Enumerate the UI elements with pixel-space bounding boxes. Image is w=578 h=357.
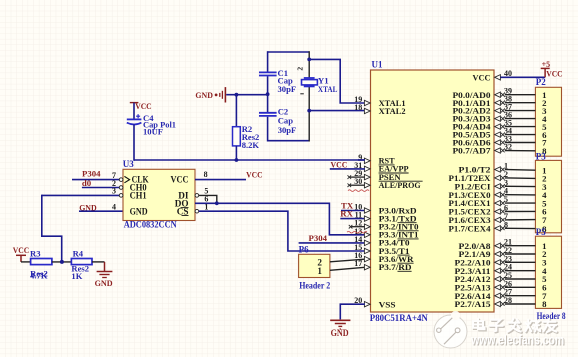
wire R2 bottom stem <box>235 146 237 160</box>
svg-text:30pF: 30pF <box>278 125 297 135</box>
U1 right pin arrows and x-marks <box>495 75 501 80</box>
svg-text:VCC: VCC <box>331 160 348 170</box>
U3 pin bubbles <box>119 178 123 182</box>
node crystal-bottom junction <box>307 109 311 113</box>
wire P6 pin2 to U1 pin 16 <box>330 259 365 262</box>
svg-text:XTAL2: XTAL2 <box>379 106 407 116</box>
svg-text:www.elecfans.com: www.elecfans.com <box>470 333 564 348</box>
svg-text:10UF: 10UF <box>143 127 163 137</box>
wire R2 top stem <box>235 95 237 127</box>
wire U1 VSS pin 20 to ground <box>340 304 365 319</box>
svg-text:P80C51RA+4N: P80C51RA+4N <box>370 314 428 324</box>
capacitor C2 <box>259 112 277 114</box>
svg-text:+5: +5 <box>542 60 551 69</box>
svg-text:GND: GND <box>130 206 148 216</box>
watermark url text <box>470 333 565 349</box>
svg-text:d0: d0 <box>82 178 92 188</box>
wires P0 bus to P2 header <box>505 94 536 96</box>
svg-text:8.2K: 8.2K <box>242 140 260 150</box>
wire crystal vertical <box>308 51 310 78</box>
svg-text:8: 8 <box>542 299 547 309</box>
wire XTAL2 to U1 pin 18 <box>309 110 365 112</box>
svg-text:R4: R4 <box>73 249 84 259</box>
wire VCC to U1 pin 31 <box>330 168 365 170</box>
svg-text:CH1: CH1 <box>130 190 147 200</box>
wire cap-loop top <box>268 51 310 53</box>
svg-text:VSS: VSS <box>379 299 396 309</box>
svg-text:3: 3 <box>112 187 116 196</box>
wire CH1 vertical to divider <box>42 195 62 262</box>
error squiggle under pin 12 <box>347 231 367 233</box>
svg-text:ADC0832CCN: ADC0832CCN <box>124 220 177 230</box>
svg-text:VCC: VCC <box>546 69 563 79</box>
node R3-R4 junction <box>60 260 64 264</box>
svg-text:VCC: VCC <box>13 245 30 255</box>
pin number 1 of Y1 (rotated) <box>300 93 304 95</box>
svg-text:P304: P304 <box>309 233 328 243</box>
op-amp U1 P80C51RA+4N body <box>371 70 495 312</box>
svg-text:GND: GND <box>331 328 349 338</box>
svg-text:P2: P2 <box>536 77 546 87</box>
svg-text:1K: 1K <box>71 271 82 281</box>
node R2-RST junction <box>235 158 239 162</box>
svg-text:U1: U1 <box>372 60 383 70</box>
watermark chinese text <box>473 319 557 333</box>
wire C4 to RST net <box>133 124 135 160</box>
op-amp U3 ADC0832CCN body <box>123 169 195 220</box>
wire R3 to junction <box>52 261 72 263</box>
wire d0 to U3 CH0 <box>82 187 120 189</box>
wire C1 branch vertical <box>267 51 269 71</box>
wire P6 pin1 to U1 pin 17 <box>330 267 365 270</box>
svg-text:P1.7/CEX4: P1.7/CEX4 <box>449 223 492 233</box>
wire U3 VCC pin 8 <box>195 179 246 181</box>
svg-text:30pF: 30pF <box>278 84 297 94</box>
U1 pin 12 stub <box>351 226 365 228</box>
svg-text:VCC: VCC <box>246 170 263 180</box>
svg-text:Header 2: Header 2 <box>299 280 330 290</box>
svg-text:P0.7/AD7: P0.7/AD7 <box>453 146 492 156</box>
svg-text:2: 2 <box>295 67 304 71</box>
svg-text:VCC: VCC <box>473 72 491 82</box>
watermark logo circle <box>434 311 467 348</box>
svg-text:18: 18 <box>354 103 362 112</box>
svg-text:P2.7/A15: P2.7/A15 <box>455 299 492 309</box>
U3 pin names <box>124 176 129 182</box>
wire VCC to R3 <box>21 261 31 263</box>
svg-text:XTAL: XTAL <box>318 84 338 94</box>
wire RX to U1 pin 11 <box>340 218 365 220</box>
svg-text:GND: GND <box>195 90 213 100</box>
svg-text:4.7K: 4.7K <box>30 271 48 281</box>
node C1-C2 midpoint junction <box>266 92 270 96</box>
wire CS to U1 pin 15 <box>199 211 365 251</box>
node crystal-top junction <box>307 58 311 62</box>
svg-text:CS: CS <box>177 206 189 216</box>
wire cap-loop bottom <box>268 140 310 142</box>
wire VCC to C4 <box>133 103 135 120</box>
ground GND (VSS) <box>330 319 350 321</box>
svg-text:R3: R3 <box>30 249 41 259</box>
svg-text:8: 8 <box>204 170 208 179</box>
wire R4 to GND <box>92 261 105 263</box>
svg-text:1: 1 <box>317 266 322 276</box>
svg-text:VCC: VCC <box>171 175 189 185</box>
svg-text:GND: GND <box>95 278 113 288</box>
U1 pin 29 stub <box>350 176 365 178</box>
wire P304 to U3 CLK <box>72 179 119 181</box>
wire DO to U1 pin 13 <box>195 203 365 235</box>
capacitor C4 polarized <box>127 118 142 120</box>
svg-text:ALE/PROG: ALE/PROG <box>379 180 421 190</box>
svg-text:U3: U3 <box>123 159 134 169</box>
wire P304 to U1 pin 14 <box>299 242 365 244</box>
svg-text:Header 8: Header 8 <box>537 311 566 321</box>
resistor R4 <box>71 259 92 265</box>
resistor R3 <box>31 259 52 265</box>
U1 left pin arrows <box>364 100 370 105</box>
error squiggle under pin 30 <box>348 190 369 192</box>
wire CH1 from divider <box>42 194 120 196</box>
svg-text:4: 4 <box>112 203 116 212</box>
wires P1 bus to P3 header <box>505 169 536 172</box>
resistor R2 <box>233 127 241 146</box>
ground GND (R4) <box>104 262 106 272</box>
crystal Y1 <box>304 77 315 79</box>
wire TX to U1 pin 10 <box>341 210 365 212</box>
svg-text:P3.7/RD: P3.7/RD <box>379 262 412 272</box>
capacitor C1 <box>259 71 277 73</box>
wire XTAL1 jog to U1 pin 19 <box>309 59 365 103</box>
node R2-top junction <box>235 93 239 97</box>
U1 pin 30 stub <box>350 184 365 186</box>
wire DI jog <box>199 195 217 203</box>
svg-text:P5: P5 <box>536 227 546 237</box>
wire GND to R2-top junction <box>226 94 267 96</box>
wire U1 pin9 RST arrow wire <box>358 159 365 161</box>
svg-text:17: 17 <box>354 259 362 268</box>
wire GND to U3 pin4 <box>79 210 123 212</box>
svg-text:P6: P6 <box>299 245 309 255</box>
wire RST net (long horizontal to U1 pin 9) <box>134 159 365 161</box>
wire U1 VCC pin 40 <box>500 76 545 78</box>
wires P2 bus to P5 header <box>505 245 536 247</box>
svg-text:RX: RX <box>340 208 353 218</box>
node DI-DO junction <box>215 201 219 205</box>
